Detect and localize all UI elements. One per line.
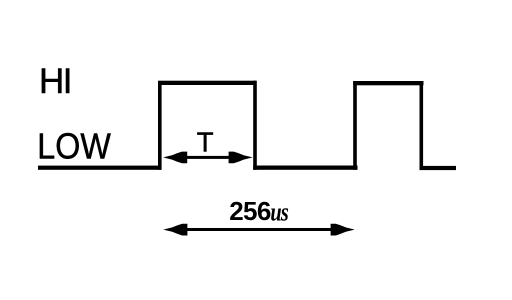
wire low segment C [420, 166, 457, 170]
dimension arrow 256us shaft [170, 228, 348, 231]
dimension arrow 256us right head [331, 224, 355, 236]
wire falling edge 2 [420, 81, 424, 170]
svg-text:HI: HI [39, 62, 71, 101]
wire rising edge 2 [353, 81, 357, 170]
wire falling edge 1 [253, 81, 257, 170]
svg-text:T: T [197, 126, 214, 157]
dimension arrow 256us left head [163, 224, 187, 236]
wire rising edge 1 [158, 81, 162, 170]
dimension arrow T shaft [170, 156, 246, 159]
dimension arrow T right head [229, 152, 253, 164]
dimension arrow T left head [163, 152, 187, 164]
svg-text:us: us [270, 198, 288, 227]
wire high segment 2 [353, 81, 423, 85]
svg-text:LOW: LOW [37, 126, 111, 167]
wire low segment B [253, 166, 357, 170]
wire low segment A [38, 166, 162, 170]
wire high segment 1 [158, 81, 256, 85]
svg-text:256: 256 [229, 196, 271, 226]
